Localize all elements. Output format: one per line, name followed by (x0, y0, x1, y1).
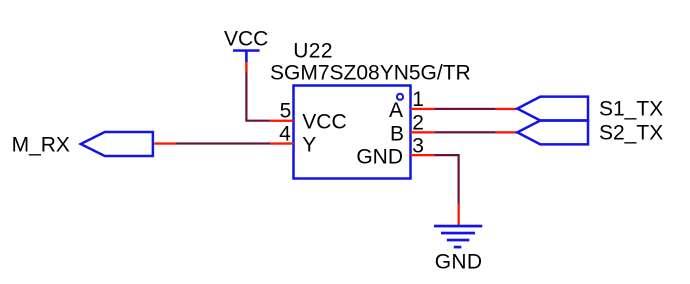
GND power pin (red stub) (458, 204, 460, 226)
S1_TX port pin (red stub) (496, 108, 518, 110)
svg-text:3: 3 (412, 134, 424, 157)
wire U22 pin 1 to S1_TX (434, 108, 496, 110)
svg-text:M_RX: M_RX (12, 134, 70, 157)
port M_RX (12, 132, 153, 157)
svg-text:S1_TX: S1_TX (599, 98, 663, 121)
power symbol VCC (224, 28, 268, 62)
wire M_RX to U22 pin 4 (176, 142, 270, 144)
svg-text:2: 2 (412, 111, 424, 134)
svg-text:B: B (390, 122, 404, 145)
pin 3 (red stub) (411, 134, 435, 157)
M_RX port pin (red stub) (154, 142, 176, 144)
svg-text:VCC: VCC (302, 111, 346, 134)
svg-text:SGM7SZ08YN5G/TR: SGM7SZ08YN5G/TR (270, 62, 471, 85)
svg-text:1: 1 (412, 88, 424, 111)
svg-text:A: A (389, 99, 403, 122)
svg-text:GND: GND (435, 251, 483, 274)
pin 4 (red stub) (270, 122, 294, 145)
pin 1 marker circle (397, 94, 403, 100)
wire U22 pin 3 to GND (434, 155, 458, 203)
svg-text:GND: GND (356, 146, 403, 169)
svg-text:S2_TX: S2_TX (599, 122, 663, 145)
svg-text:Y: Y (302, 134, 316, 157)
port S2_TX (517, 121, 663, 145)
pin 5 (red stub) (270, 100, 294, 123)
port S1_TX (517, 97, 663, 121)
S2_TX port pin (red stub) (496, 131, 518, 133)
svg-text:5: 5 (280, 100, 292, 123)
svg-text:VCC: VCC (224, 28, 268, 51)
pin 2 (red stub) (411, 111, 435, 134)
wire U22 pin 2 to S2_TX (434, 131, 496, 133)
VCC power pin (red stub) (245, 62, 247, 73)
ground symbol GND (434, 225, 482, 274)
wire VCC to U22 pin 5 (246, 73, 269, 121)
IC U22 SGM7SZ08YN5G/TR (270, 40, 471, 179)
pin 1 (red stub) (411, 88, 435, 111)
svg-text:4: 4 (279, 122, 291, 145)
svg-text:U22: U22 (293, 40, 333, 63)
